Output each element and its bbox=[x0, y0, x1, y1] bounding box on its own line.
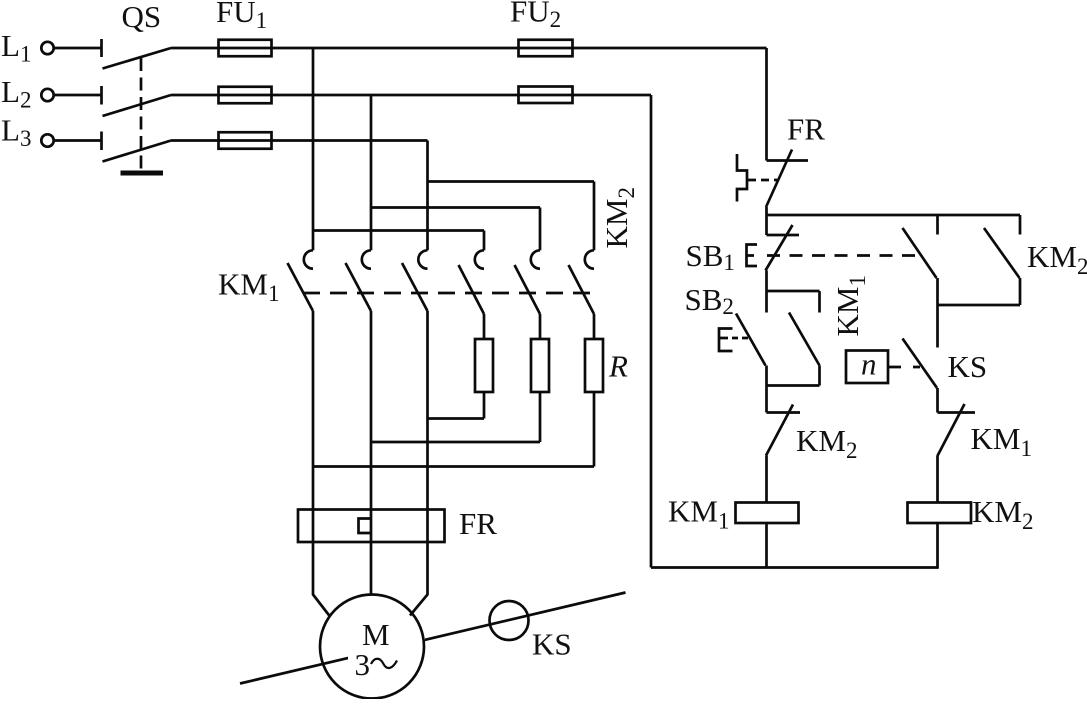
svg-text:SB2: SB2 bbox=[685, 282, 734, 319]
svg-text:KM2: KM2 bbox=[796, 423, 857, 463]
svg-text:n: n bbox=[861, 347, 877, 382]
svg-text:KS: KS bbox=[948, 349, 988, 384]
svg-text:KM1: KM1 bbox=[830, 275, 870, 336]
svg-text:3: 3 bbox=[355, 647, 371, 682]
svg-text:FR: FR bbox=[459, 506, 497, 541]
svg-text:FU2: FU2 bbox=[510, 0, 561, 32]
svg-text:FU1: FU1 bbox=[216, 0, 267, 33]
svg-text:KM1: KM1 bbox=[971, 421, 1032, 461]
svg-text:KM2: KM2 bbox=[599, 187, 639, 248]
svg-text:SB1: SB1 bbox=[686, 238, 735, 275]
svg-text:KM2: KM2 bbox=[972, 494, 1033, 534]
svg-text:KM2: KM2 bbox=[1027, 239, 1087, 279]
svg-text:L1: L1 bbox=[1, 28, 31, 67]
svg-text:L2: L2 bbox=[1, 74, 31, 113]
svg-text:KM1: KM1 bbox=[668, 494, 729, 534]
svg-text:KS: KS bbox=[532, 627, 572, 662]
svg-text:QS: QS bbox=[122, 0, 162, 34]
svg-text:KM1: KM1 bbox=[218, 267, 279, 307]
svg-text:R: R bbox=[608, 349, 628, 384]
svg-text:L3: L3 bbox=[1, 113, 31, 152]
svg-text:FR: FR bbox=[787, 112, 825, 147]
